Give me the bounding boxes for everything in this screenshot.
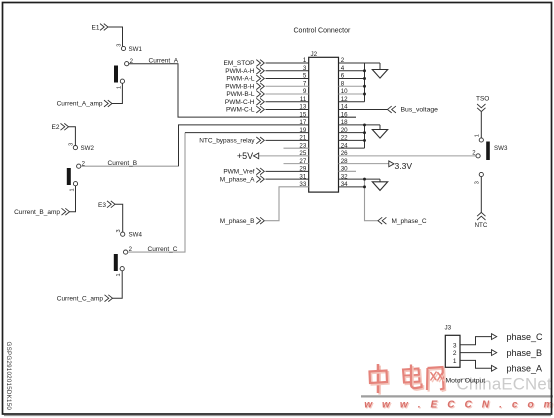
pin 6 wire — [339, 77, 365, 79]
wire E2 to SW2 pin3 — [69, 127, 76, 146]
svg-text:1: 1 — [116, 273, 122, 276]
wire Current_B (SW2 pin2 to J2 pin17) — [81, 165, 179, 167]
svg-text:24: 24 — [341, 142, 348, 149]
switch SW3 — [472, 134, 508, 184]
svg-text:1: 1 — [303, 57, 307, 64]
ground at pin 32 — [379, 179, 381, 182]
pin 30 stub wire — [339, 170, 357, 172]
svg-text:M_phase_C: M_phase_C — [392, 218, 427, 225]
svg-text:2: 2 — [341, 57, 345, 64]
svg-text:1: 1 — [453, 358, 457, 365]
junction dot pin 8 — [363, 85, 366, 88]
pin 27 stub wire — [284, 163, 309, 165]
switch SW2 — [67, 143, 95, 192]
pin 14 wire + port Bus_voltage — [339, 108, 388, 110]
wire M_phase_B to pin 33 — [265, 187, 309, 221]
svg-text:Current_B_amp: Current_B_amp — [14, 209, 60, 216]
pin 9 wire + label PWM-B-L — [266, 93, 309, 95]
switch SW4 — [114, 229, 143, 276]
svg-text:25: 25 — [299, 150, 306, 157]
port Current_A_amp — [104, 100, 108, 107]
wire TSO to SW3 pin1 — [480, 112, 482, 138]
svg-text:14: 14 — [341, 104, 348, 111]
connector J2 — [309, 51, 339, 192]
svg-text:Bus_voltage: Bus_voltage — [401, 107, 439, 114]
pin 26 wire to SW3 — [339, 155, 477, 157]
wire Current_A (SW1 pin2 to J2 pin15) — [129, 64, 309, 117]
bus pins 4-12 — [364, 63, 366, 102]
ground at pin 2 — [379, 63, 381, 70]
junction dot pin 18 — [363, 123, 366, 126]
pin 25 wire + power port +5V — [259, 155, 309, 157]
svg-text:Current_A_amp: Current_A_amp — [57, 101, 103, 108]
svg-text:31: 31 — [299, 173, 306, 180]
svg-text:21: 21 — [299, 135, 306, 142]
port NTC — [477, 212, 485, 216]
svg-text:2: 2 — [453, 350, 457, 357]
svg-text:NTC: NTC — [475, 222, 488, 229]
svg-text:9: 9 — [303, 88, 307, 95]
bus pins 32-34 down — [365, 179, 379, 221]
svg-text:6: 6 — [341, 73, 345, 80]
svg-text:M_phase_B: M_phase_B — [220, 218, 255, 225]
wire Current_C (SW4 pin2 to J2 pin19) — [128, 133, 185, 252]
svg-text:3: 3 — [475, 181, 481, 184]
svg-text:J3: J3 — [445, 325, 452, 332]
svg-text:11: 11 — [300, 96, 307, 103]
svg-text:PWM-A-L: PWM-A-L — [226, 76, 255, 83]
svg-text:23: 23 — [299, 142, 306, 149]
junction dot pin 32 — [363, 178, 366, 181]
junction dot pin 6 — [363, 77, 366, 80]
bus pins 18-24 — [364, 125, 366, 148]
pin 31 wire + label M_phase_A — [266, 178, 309, 180]
svg-text:phase_B: phase_B — [507, 348, 543, 358]
svg-text:w w w . E C C N . c o m: w w w . E C C N . c o m — [364, 400, 554, 411]
svg-text:EM_STOP: EM_STOP — [224, 60, 255, 67]
svg-text:3: 3 — [303, 65, 307, 72]
svg-text:30: 30 — [341, 166, 348, 173]
pin 18 wire — [339, 124, 381, 126]
svg-text:7: 7 — [303, 80, 307, 87]
pin 1 wire + label EM_STOP — [266, 62, 309, 64]
svg-text:PWM-B-H: PWM-B-H — [225, 83, 255, 90]
svg-text:TSO: TSO — [476, 96, 489, 103]
svg-text:13: 13 — [299, 104, 306, 111]
svg-text:1: 1 — [475, 134, 481, 137]
svg-text:34: 34 — [341, 181, 348, 188]
wire SW1 pin1 to Current_A_amp — [112, 83, 122, 103]
svg-text:3: 3 — [69, 143, 75, 146]
svg-text:SW1: SW1 — [129, 46, 143, 53]
port phase_A — [492, 365, 497, 371]
pin 16 stub wire — [339, 116, 357, 118]
pin 7 wire + label PWM-B-H — [266, 85, 309, 87]
watermark red logo 中电网 — [370, 364, 446, 395]
svg-text:3.3V: 3.3V — [395, 161, 413, 171]
svg-text:E2: E2 — [52, 124, 60, 131]
connector J3 — [445, 325, 461, 368]
port M_phase_C — [378, 217, 382, 224]
wire J3 pin2 to phase_B — [460, 352, 492, 354]
svg-text:M_phase_A: M_phase_A — [220, 176, 255, 183]
svg-text:Current_B: Current_B — [108, 160, 138, 167]
svg-text:32: 32 — [341, 173, 348, 180]
svg-text:Current_A: Current_A — [149, 58, 179, 65]
junction dot pin 20 — [363, 131, 366, 134]
junction dot pin 10 — [363, 93, 366, 96]
svg-text:29: 29 — [299, 166, 306, 173]
wire SW3 pin3 to NTC — [480, 177, 482, 213]
pin 5 wire + label PWM-A-L — [266, 77, 309, 79]
svg-text:1: 1 — [69, 188, 75, 191]
pin 24 wire — [339, 147, 365, 149]
svg-text:4: 4 — [341, 65, 345, 72]
svg-text:18: 18 — [341, 119, 348, 126]
pin 28 wire + power port 3.3V — [339, 163, 389, 165]
svg-text:NTC_bypass_relay: NTC_bypass_relay — [199, 138, 255, 145]
svg-text:20: 20 — [341, 127, 348, 134]
svg-text:22: 22 — [341, 135, 348, 142]
svg-text:1: 1 — [116, 86, 122, 89]
svg-text:GSPG29102015DK150: GSPG29102015DK150 — [5, 342, 12, 411]
wire J3 pin1 to phase_A — [460, 360, 492, 368]
pin 3 wire + label PWM-A-H — [266, 70, 309, 72]
watermark gray underline — [361, 395, 553, 397]
svg-text:SW4: SW4 — [129, 232, 143, 239]
svg-text:10: 10 — [341, 88, 348, 95]
svg-text:SW3: SW3 — [494, 145, 508, 152]
junction dot pin 34 — [363, 185, 366, 188]
wire SW4 pin1 to Current_C_amp — [113, 271, 123, 298]
switch SW1 — [114, 44, 142, 89]
port Current_C_amp — [105, 295, 109, 302]
svg-text:phase_C: phase_C — [507, 332, 544, 342]
pin 22 wire — [339, 139, 365, 141]
port Current_B_amp — [62, 208, 66, 215]
svg-text:Control Connector: Control Connector — [294, 28, 351, 35]
wire J3 pin3 to phase_C — [460, 337, 492, 345]
svg-text:SW2: SW2 — [81, 145, 95, 152]
junction dot pin 4 — [363, 69, 366, 72]
svg-text:PWM_Vref: PWM_Vref — [223, 169, 254, 176]
ground at pin 18 — [379, 125, 381, 130]
pin 10 wire — [339, 93, 365, 95]
pin 34 wire — [339, 186, 365, 188]
svg-text:+5V: +5V — [237, 151, 253, 161]
svg-text:Current_C: Current_C — [148, 246, 178, 253]
wire E1 to SW1 pin3 — [108, 27, 123, 46]
port phase_C — [492, 334, 497, 340]
svg-text:8: 8 — [341, 80, 345, 87]
svg-text:3: 3 — [117, 44, 123, 47]
svg-text:PWM-A-H: PWM-A-H — [225, 68, 255, 75]
svg-text:PWM-C-L: PWM-C-L — [226, 107, 255, 114]
port phase_B — [492, 350, 497, 356]
svg-text:3: 3 — [116, 229, 122, 232]
svg-text:E3: E3 — [98, 202, 106, 209]
svg-text:PWM-B-L: PWM-B-L — [226, 91, 255, 98]
wire E3 to SW4 pin3 — [115, 204, 123, 232]
pin 32 wire — [339, 178, 381, 180]
svg-text:26: 26 — [341, 150, 348, 157]
pin 12 wire — [339, 101, 365, 103]
wire SW2 pin1 to Current_B_amp — [70, 186, 76, 212]
junction dot pin 22 — [363, 139, 366, 142]
frame bottom inner gray line — [4, 415, 551, 417]
pin 11 wire + label PWM-C-H — [266, 101, 309, 103]
svg-text:PWM-C-H: PWM-C-H — [225, 99, 255, 106]
svg-text:16: 16 — [341, 111, 348, 118]
pin 23 stub wire — [284, 147, 309, 149]
pin 20 wire — [339, 132, 365, 134]
pin 29 wire + label PWM_Vref — [266, 170, 309, 172]
svg-text:phase_A: phase_A — [507, 363, 543, 373]
pin 21 wire + label NTC_bypass_relay — [266, 139, 309, 141]
svg-text:3: 3 — [453, 342, 457, 349]
svg-text:27: 27 — [299, 158, 306, 165]
pin 2 wire — [339, 62, 381, 64]
svg-text:E1: E1 — [92, 24, 100, 31]
pin 13 wire + label PWM-C-L — [266, 108, 309, 110]
svg-text:5: 5 — [303, 73, 307, 80]
pin 8 wire — [339, 85, 365, 87]
svg-text:Current_C_amp: Current_C_amp — [57, 295, 104, 302]
svg-text:Motor Output: Motor Output — [446, 377, 486, 384]
svg-text:12: 12 — [341, 96, 348, 103]
pin 4 wire — [339, 70, 365, 72]
svg-text:28: 28 — [341, 158, 348, 165]
